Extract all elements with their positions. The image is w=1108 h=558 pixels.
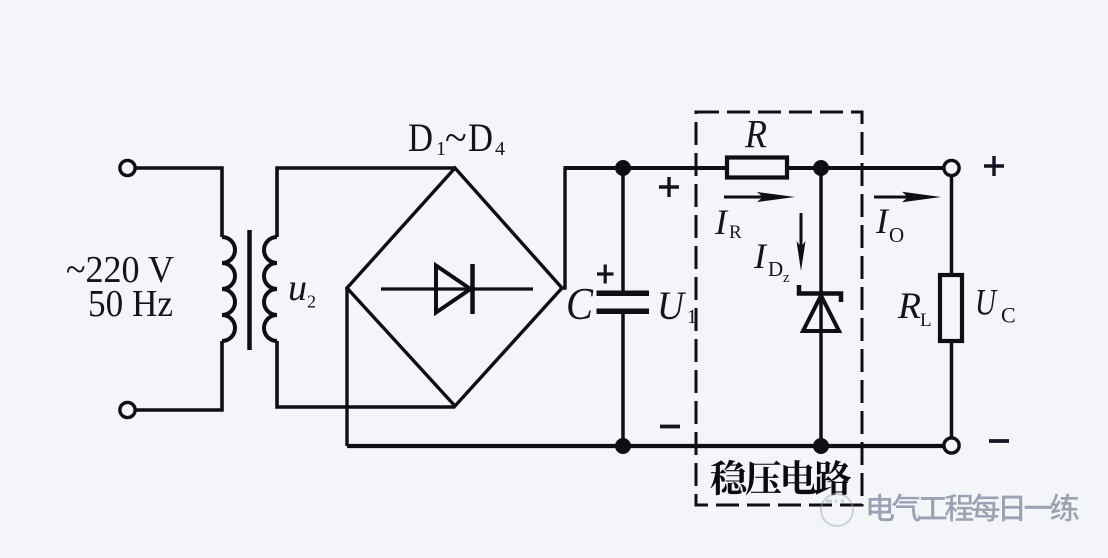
svg-text:u: u <box>288 267 307 309</box>
wire: bridge - output down to bottom rail <box>345 288 348 446</box>
wire: top rail resistor R to + terminal <box>787 166 945 170</box>
node: capacitor top junction <box>615 160 631 176</box>
watermark text <box>869 494 894 521</box>
wire: RL top lead <box>950 176 954 276</box>
polarity + output <box>984 156 1004 176</box>
polarity + of U1 <box>659 177 679 197</box>
svg-text:D: D <box>768 257 783 281</box>
svg-text:U: U <box>975 283 998 324</box>
svg-text:R: R <box>744 112 767 157</box>
transformer secondary winding <box>264 237 277 341</box>
capacitor polarity + <box>597 265 614 284</box>
arrow IO <box>874 196 925 199</box>
svg-text:R: R <box>729 222 742 243</box>
svg-text:U: U <box>657 283 687 328</box>
svg-text:O: O <box>889 223 904 247</box>
svg-text:2: 2 <box>307 292 316 312</box>
terminal: AC input top <box>120 160 135 175</box>
zener diode Dz cathode bar <box>799 285 841 302</box>
bridge inner diode lead <box>381 287 533 290</box>
bridge inner diode cathode bar <box>470 264 475 314</box>
terminal: output + <box>944 160 959 175</box>
terminal: output - <box>944 438 959 453</box>
zener diode Dz triangle <box>803 296 839 332</box>
svg-text:~: ~ <box>445 115 467 160</box>
wire: secondary top to bridge <box>277 168 455 237</box>
wire: top rail bridge to resistor R <box>564 166 728 170</box>
wire: secondary bottom to bridge <box>277 341 455 407</box>
arrow IR <box>724 196 780 199</box>
wire: bottom rail <box>347 444 945 448</box>
wire: top terminal to transformer primary <box>135 168 222 237</box>
svg-text:C: C <box>566 279 594 329</box>
wire: RL bottom lead <box>950 341 954 438</box>
svg-text:I: I <box>875 201 890 241</box>
wire: bridge + output up to top rail <box>562 168 565 288</box>
svg-text:4: 4 <box>495 138 505 160</box>
wire: capacitor top lead <box>621 168 625 291</box>
watermark icon <box>821 494 853 526</box>
node: R to zener junction top <box>813 160 829 176</box>
node: zener bottom junction <box>813 438 829 454</box>
bridge rectifier D1~D4 diamond <box>347 168 562 406</box>
svg-text:I: I <box>714 202 729 242</box>
transformer core <box>247 230 252 350</box>
load resistor RL <box>940 275 962 341</box>
wire: zener branch <box>819 168 823 446</box>
svg-text:I: I <box>753 236 768 276</box>
svg-text:50 Hz: 50 Hz <box>88 283 173 325</box>
resistor R <box>727 158 787 178</box>
terminal: AC input bottom <box>120 402 135 417</box>
svg-text:L: L <box>920 310 932 331</box>
polarity - output <box>989 439 1009 443</box>
polarity - of U1 <box>660 425 680 429</box>
arrow IDz <box>800 213 803 255</box>
svg-text:D: D <box>408 115 433 160</box>
capacitor C plates <box>597 290 650 296</box>
node: capacitor bottom junction <box>615 438 631 454</box>
wire: capacitor bottom lead <box>621 314 625 447</box>
label: regulator circuit (CJK) <box>711 460 747 495</box>
svg-text:D: D <box>468 115 493 160</box>
svg-text:R: R <box>897 286 921 327</box>
svg-text:z: z <box>783 270 790 286</box>
wire: bottom terminal to transformer primary <box>135 341 222 410</box>
svg-text:C: C <box>1001 303 1016 328</box>
dashed box: regulator circuit <box>696 112 862 505</box>
transformer primary winding <box>222 237 235 341</box>
bridge inner diode triangle <box>436 266 471 313</box>
